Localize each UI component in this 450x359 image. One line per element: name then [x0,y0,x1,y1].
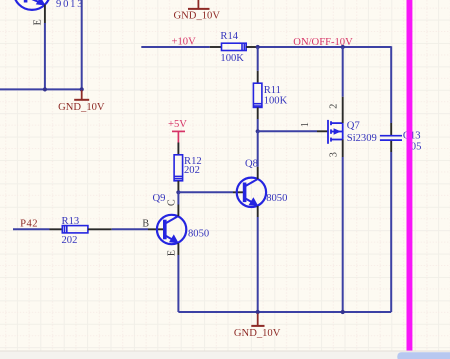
pin 1 of R13 [50,228,63,230]
svg-text:Q7: Q7 [347,120,360,131]
pin E of Q9 [177,243,179,255]
wire ON/OFF rail [258,46,392,48]
transistor Q9 8050 [157,215,186,244]
ground GND_10V (top) [188,0,210,9]
wire R11 to gate node [257,119,259,131]
svg-text:8050: 8050 [266,193,287,204]
pin 1 of C13 [390,123,392,135]
svg-text:2: 2 [329,104,340,109]
node junction (343,47) [341,45,345,49]
svg-text:1: 1 [300,122,311,127]
svg-text:E: E [33,19,44,25]
emitter arrow of 9013 [36,0,46,5]
resistor R11 [253,83,262,107]
pin 2 of R13 [88,228,112,230]
ground GND_10V (bottom) [251,314,264,326]
wire Q8 collector up [257,131,259,166]
emitter arrow of Q9 [169,234,179,243]
resistor R13 [62,226,88,233]
svg-text:8050: 8050 [188,228,209,239]
wire Q7 drain up [342,47,344,97]
svg-text:R14: R14 [220,31,238,42]
node junction (258,47) [256,45,260,49]
arrow of Q7 [334,128,341,135]
svg-text:100K: 100K [220,53,244,64]
svg-text:B: B [142,218,149,229]
transistor Q7 (P-MOSFET Si2309) [328,120,343,144]
resistor R14 [222,43,247,50]
node junction (258,312) [256,310,260,314]
svg-text:202: 202 [62,235,78,246]
svg-text:C: C [167,199,178,206]
svg-text:GND_10V: GND_10V [234,328,281,339]
pin 2 of R14 [246,46,258,48]
emitter arrow of Q8 [249,197,259,206]
wire emitter 9013 down [44,23,46,89]
node junction (82,89) [80,87,84,91]
scrollbar track [0,351,450,359]
wire bottom rail [178,311,391,313]
wire vertical from top edge [81,0,83,90]
svg-text:202: 202 [184,165,200,176]
ground GND_10V (left) [74,90,89,100]
wire C13 top [390,46,392,123]
pin B of Q8 [233,191,245,193]
wire R14 junction down to R11 [257,47,259,71]
wire gate [258,130,317,132]
wire C13 bottom [390,152,392,312]
pin E of 9013 [44,5,46,24]
svg-text:9013: 9013 [56,0,83,10]
wire horizontal left rail [0,88,82,90]
wire Q9 collector up [177,192,179,204]
pin 3 of Q7 [342,140,344,158]
wire +10V rail [141,46,210,48]
pin 1 of R11 [257,71,259,83]
pin C of Q8 [257,167,259,179]
pin 1 of R12 [177,143,179,155]
pin 2 of Q7 [342,97,344,123]
pin 1 of Q7 (gate) [317,130,328,132]
resistor R12 [174,155,183,181]
svg-text:GND_10V: GND_10V [174,11,221,22]
wire Q8 emitter down [257,217,259,312]
svg-text:R13: R13 [62,216,80,227]
svg-text:E: E [167,250,178,256]
magenta boundary line [407,0,413,351]
svg-text:3: 3 [329,152,340,157]
pin 2 of R12 [177,181,179,193]
svg-text:+5V: +5V [168,119,187,130]
node junction (258,131) [256,129,260,133]
pin 1 of R14 [210,46,222,48]
scrollbar thumb [397,352,450,359]
wire base Q8 [178,191,233,193]
svg-text:Si2309: Si2309 [347,133,377,144]
wire Q9 emitter down [177,255,179,312]
node junction (178,192) [176,190,180,194]
node junction (343,312) [341,310,345,314]
svg-text:P42: P42 [20,219,38,230]
pin C of Q9 [177,205,179,217]
wire P42 [13,228,50,230]
pin 2 of C13 [390,141,392,152]
node junction (45,89) [43,87,47,91]
transistor Q? 9013 (top-left, partially cut) [14,0,51,10]
svg-text:Q9: Q9 [153,193,166,204]
pin 2 of R11 [257,107,259,119]
svg-text:GND_10V: GND_10V [58,102,105,113]
wire Q7 source down [342,157,344,312]
capacitor C13 [380,136,402,140]
pin E of Q8 [257,206,259,217]
svg-text:+10V: +10V [172,36,197,47]
svg-text:100K: 100K [264,95,288,106]
pin B of Q9 [148,228,165,230]
svg-text:Q8: Q8 [245,158,258,169]
wire R13 to Q9 base [112,228,148,230]
svg-text:R11: R11 [264,85,281,96]
transistor Q8 8050 [237,178,266,207]
